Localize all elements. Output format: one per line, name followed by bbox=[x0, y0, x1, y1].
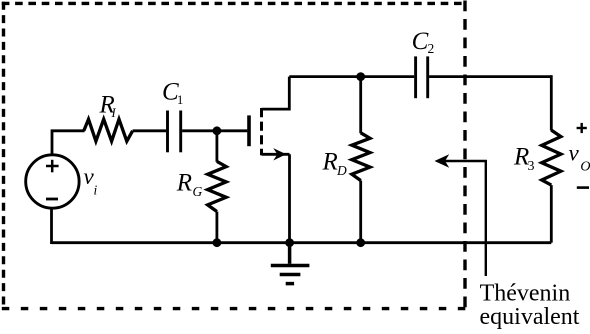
Thevenin arrowhead bbox=[435, 154, 450, 168]
output minus bbox=[577, 186, 589, 189]
capacitor C1 bbox=[168, 111, 181, 153]
source vi circle bbox=[26, 155, 79, 208]
transistor Q1 source lead bbox=[262, 153, 290, 156]
wire gate node to RG bbox=[215, 131, 218, 162]
minus sign in source bbox=[46, 198, 58, 201]
wire source bottom lead bbox=[50, 208, 53, 244]
Thevenin boundary dashed box bbox=[2, 1, 466, 311]
svg-text:R: R bbox=[322, 149, 338, 176]
wire from source top to RI bbox=[52, 131, 85, 156]
bottom rail bbox=[52, 241, 552, 244]
svg-text:i: i bbox=[94, 183, 98, 198]
capacitor C2 bbox=[416, 56, 428, 98]
wire RD bottom bbox=[359, 181, 362, 243]
svg-text:3: 3 bbox=[528, 159, 535, 174]
svg-text:D: D bbox=[336, 163, 347, 178]
transistor Q1 source arrowhead bbox=[273, 148, 286, 160]
svg-text:O: O bbox=[580, 160, 590, 175]
node RD top bbox=[356, 72, 365, 81]
svg-text:equivalent: equivalent bbox=[480, 304, 580, 330]
top rail left segment bbox=[289, 75, 414, 78]
wire source to bottom rail bbox=[288, 154, 291, 242]
resistor RI bbox=[84, 119, 133, 141]
svg-text:C: C bbox=[412, 28, 429, 55]
transistor Q1 drain lead bbox=[262, 77, 290, 110]
wire R3 top bbox=[550, 75, 553, 130]
wire RD top bbox=[359, 77, 362, 134]
svg-text:Thévenin: Thévenin bbox=[480, 280, 571, 306]
top rail right segment bbox=[429, 75, 551, 78]
svg-text:1: 1 bbox=[177, 93, 183, 107]
wire C1 to gate bbox=[182, 129, 247, 132]
svg-text:I: I bbox=[111, 106, 117, 120]
wire R3 bottom bbox=[550, 185, 553, 243]
output plus bbox=[577, 123, 587, 133]
wire RG to bottom rail bbox=[215, 212, 218, 243]
transistor Q1 channel (dashed) bbox=[260, 108, 263, 155]
resistor RG bbox=[208, 161, 227, 211]
node RD bottom bbox=[356, 238, 365, 247]
svg-text:R: R bbox=[176, 169, 192, 196]
node RG bottom bbox=[213, 238, 222, 247]
resistor R3 bbox=[542, 130, 561, 185]
svg-text:G: G bbox=[193, 184, 203, 199]
node gate junction bbox=[213, 126, 222, 135]
Thevenin pointer arrow bbox=[443, 161, 486, 276]
node source bottom bbox=[285, 238, 294, 247]
transistor Q1 gate bar bbox=[247, 115, 251, 146]
resistor RD bbox=[352, 133, 370, 181]
svg-text:2: 2 bbox=[428, 41, 435, 56]
svg-text:v: v bbox=[569, 141, 580, 166]
wire RI to C1 bbox=[133, 129, 167, 132]
ground bbox=[271, 243, 310, 284]
plus sign in source bbox=[46, 160, 59, 173]
